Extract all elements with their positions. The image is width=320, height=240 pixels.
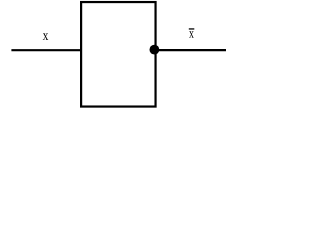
node x-bar label (189, 31, 194, 38)
overbar of x-bar (189, 28, 195, 30)
wire output x-bar (154, 49, 226, 51)
wire input x (11, 49, 82, 51)
inversion bubble (150, 45, 160, 55)
inverter box U1 (81, 2, 155, 107)
node x label (43, 33, 48, 40)
